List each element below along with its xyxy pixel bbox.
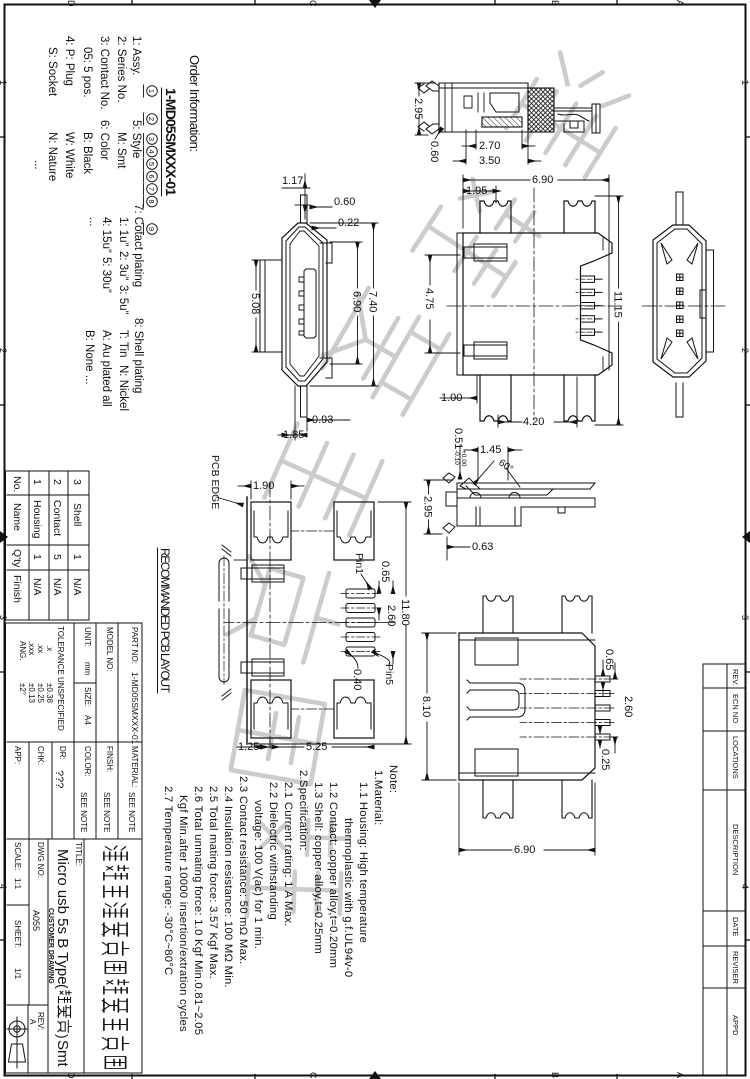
svg-text:Contact: Contact [51, 500, 63, 536]
E pad top-left rect [334, 502, 374, 560]
view C smt pins [581, 276, 603, 335]
svg-text:4.20: 4.20 [523, 416, 544, 428]
zone letters left [66, 0, 685, 7]
dim 1.45 [464, 447, 522, 480]
svg-text:3: 5u”: 3: 5u” [117, 285, 129, 315]
svg-text:11.15: 11.15 [612, 291, 624, 318]
svg-text:5.08: 5.08 [249, 293, 261, 314]
svg-text:DATE: DATE [731, 917, 740, 936]
dim 2.70 [462, 130, 535, 149]
dim 1.25 [234, 560, 272, 747]
svg-text:MODEL NO:: MODEL NO: [105, 627, 114, 672]
view A bottom flange prong left [426, 81, 439, 91]
svg-text:ECN NO: ECN NO [731, 694, 740, 723]
view D right stem [676, 383, 683, 417]
svg-text:2.70: 2.70 [479, 140, 500, 152]
dim 1.95 view C [463, 186, 496, 203]
svg-text:0.63: 0.63 [472, 541, 493, 553]
view A inner hatch strip [482, 117, 522, 127]
svg-text:A055: A055 [31, 910, 41, 931]
svg-text:0.40: 0.40 [351, 669, 363, 690]
svg-text:5: 5 [51, 554, 63, 560]
svg-text:1.45: 1.45 [480, 444, 501, 456]
svg-text:1-MD05SMXXX-01: 1-MD05SMXXX-01 [163, 88, 179, 196]
E pad bottom-left inner contour [254, 511, 288, 543]
svg-text:2.60: 2.60 [385, 605, 397, 626]
dim 6.90 view C [463, 175, 609, 370]
view D top bar [706, 250, 714, 352]
svg-text:2: 2 [51, 479, 63, 485]
view D corner latches [661, 243, 698, 359]
svg-text:5: 5 [147, 162, 156, 166]
svg-text:±0.13: ±0.13 [27, 683, 36, 704]
svg-text:Pin5: Pin5 [383, 664, 395, 685]
svg-text:No.: No. [11, 476, 23, 492]
svg-text:REVISER: REVISER [731, 951, 740, 985]
view A tail top foot [592, 104, 600, 133]
svg-text:LOCATIONS: LOCATIONS [731, 736, 740, 779]
svg-text:...: ... [87, 217, 99, 227]
svg-text:6.90: 6.90 [514, 844, 535, 856]
view C shell body outline [463, 233, 612, 375]
dim 0.93 [307, 417, 350, 431]
svg-text:-0.10: -0.10 [453, 450, 460, 465]
view A body inner edge lines [439, 83, 528, 132]
svg-text:DWG NO:: DWG NO: [36, 842, 45, 878]
svg-text:±0.25: ±0.25 [36, 683, 45, 704]
svg-text:9: 9 [147, 227, 156, 231]
center triangle bottom [0, 531, 8, 543]
svg-text:1.90: 1.90 [253, 480, 274, 492]
view F second wall strip [457, 498, 595, 507]
view C inner corner lines [602, 238, 604, 370]
svg-text:±2°: ±2° [18, 683, 27, 695]
view B inner wall [290, 231, 319, 376]
svg-text:1.Material:: 1.Material: [372, 770, 384, 826]
svg-text:A: A [675, 0, 685, 6]
svg-text:5: Style: 5: Style [130, 120, 142, 158]
svg-text:1: 1 [31, 554, 43, 560]
dim 6.90 view B [330, 242, 362, 364]
dim 3.50 [453, 130, 541, 164]
svg-text:8: 8 [147, 199, 156, 203]
svg-text:N: Nature: N: Nature [46, 132, 58, 181]
zone numbers top [740, 80, 750, 889]
svg-text:SEE NOTE: SEE NOTE [102, 792, 111, 832]
E pcb edge line [246, 497, 248, 744]
svg-text:4: 4 [0, 884, 8, 889]
svg-text:60°: 60° [496, 457, 515, 475]
svg-text:A: A [675, 1072, 685, 1078]
company name pseudo CJK row [102, 846, 128, 1069]
view F housing block [457, 507, 521, 526]
svg-text:???: ??? [53, 770, 65, 788]
svg-text:4.75: 4.75 [423, 288, 435, 309]
svg-text:0.60: 0.60 [428, 141, 440, 162]
svg-text:4: 15u”: 4: 15u” [100, 217, 112, 253]
svg-text:5: 30u”: 5: 30u” [100, 257, 112, 293]
third angle projection symbol [7, 1017, 27, 1068]
E pin pad centerlines [340, 594, 380, 652]
view F bottom closing [456, 483, 458, 526]
notes block [162, 765, 399, 1035]
svg-text:B: Black: B: Black [81, 132, 93, 174]
svg-text:UNIT:: UNIT: [83, 627, 92, 647]
view C bolt post 1 [464, 244, 507, 261]
svg-text:B: None: B: None [83, 330, 95, 372]
svg-text:RECOMMANDED PCB LAYOUT: RECOMMANDED PCB LAYOUT [158, 548, 172, 694]
svg-text:2: 2 [0, 348, 8, 353]
title block [6, 623, 143, 1073]
dim 0.63 [447, 537, 470, 560]
view G pin centerlines [520, 679, 614, 737]
svg-text:1.3 Shell: copper alloy,t=0.25: 1.3 Shell: copper alloy,t=0.25mm [312, 782, 324, 954]
E pad top-right rect [334, 680, 374, 738]
view C pin dashes [576, 279, 599, 332]
svg-text:2: 3u”: 2: 3u” [117, 251, 129, 281]
E pad pair connectors [291, 530, 334, 532]
svg-text:.xxx: .xxx [27, 641, 36, 655]
svg-text:DESCRIPTION: DESCRIPTION [731, 824, 740, 875]
center triangle top [742, 531, 750, 543]
svg-text:7: Cotact plating: 7: Cotact plating [132, 204, 144, 287]
svg-text:+0.00: +0.00 [460, 450, 467, 467]
view B left ear [320, 243, 332, 263]
svg-text:SEE NOTE: SEE NOTE [79, 792, 88, 832]
svg-text:4: 4 [740, 884, 750, 889]
view A tail wavy contact [558, 114, 589, 121]
svg-text:3: 3 [71, 479, 83, 485]
svg-text:1.85: 1.85 [283, 429, 304, 441]
view D left stem [676, 192, 683, 225]
svg-text:2.6 Total unmating force: 1.0: 2.6 Total unmating force: 1.0 Kgf Min.0.… [192, 786, 204, 1035]
E pad bottom-right inner contour [254, 697, 288, 729]
svg-text:1: 1u”: 1: 1u” [117, 217, 129, 247]
svg-text:N/A: N/A [71, 578, 83, 596]
view A bottom flange prong right [426, 124, 439, 134]
svg-text:N/A: N/A [51, 578, 63, 596]
svg-text:1: 1 [147, 89, 156, 93]
svg-text:3: 3 [147, 137, 156, 141]
E centerline horizontal [269, 483, 271, 748]
view B outer shell [282, 223, 327, 386]
view C bolt post 2 [464, 342, 507, 359]
svg-text:SHEET:: SHEET: [13, 920, 22, 948]
svg-text:SCALE:: SCALE: [13, 842, 22, 870]
E pad bottom-right rect [251, 680, 291, 738]
svg-text:3: 3 [740, 615, 750, 620]
svg-text:5.25: 5.25 [306, 741, 327, 753]
svg-text:7: 7 [147, 187, 156, 191]
dim 1.00 [440, 375, 477, 403]
svg-text:4: 4 [147, 149, 156, 153]
dim 2.95 view F [424, 480, 453, 534]
view G body outline [459, 633, 595, 780]
dim 11.80 [250, 502, 411, 744]
view C left top pad [564, 201, 595, 233]
svg-text:0.65: 0.65 [379, 561, 391, 582]
svg-text:0.25: 0.25 [599, 749, 611, 770]
svg-text:0.65: 0.65 [603, 649, 615, 670]
E pad top-left inner contour [337, 511, 371, 543]
view D centerline [640, 305, 725, 307]
svg-text:SEE NOTE: SEE NOTE [127, 792, 136, 832]
dim 11.15 [595, 196, 623, 425]
svg-text:FINSH:: FINSH: [105, 746, 114, 772]
zone ticks right edge [132, 1075, 617, 1079]
svg-text:3: Contact No.: 3: Contact No. [98, 36, 110, 110]
svg-text:Order Information:: Order Information: [187, 55, 202, 152]
svg-text:6.90: 6.90 [351, 291, 363, 312]
svg-text:Note:: Note: [387, 765, 399, 793]
svg-text:11.80: 11.80 [399, 599, 411, 626]
view B inner shell [286, 227, 323, 381]
svg-text:COLOR:: COLOR: [83, 746, 92, 777]
svg-text:voltage: 100 V(ac) for 1 min.: voltage: 100 V(ac) for 1 min. [252, 800, 264, 949]
svg-text:Finish: Finish [11, 575, 23, 603]
svg-text:S: Socket: S: Socket [46, 47, 58, 97]
svg-text:Name: Name [11, 503, 23, 531]
dim 6.90 view G [459, 783, 595, 855]
circled digits [144, 85, 158, 235]
svg-text:2.60: 2.60 [622, 696, 634, 717]
view C bottom edge double line [456, 233, 458, 375]
svg-text:Q'ty: Q'ty [11, 549, 23, 568]
view C right top pad [564, 375, 595, 421]
svg-text:B: B [550, 1072, 560, 1078]
view C left bottom pad [480, 201, 511, 233]
svg-text:±0.38: ±0.38 [45, 683, 54, 704]
E centerline vertical [225, 622, 395, 624]
svg-text:1.2 Contact: copper alloy,t=0.: 1.2 Contact: copper alloy,t=0.20mm [327, 782, 339, 968]
zone numbers bottom [0, 80, 8, 889]
svg-text:6.90: 6.90 [532, 174, 553, 186]
view F shell front face strip [457, 483, 595, 489]
svg-text:CUSTOMER DRAWING: CUSTOMER DRAWING [47, 908, 54, 984]
svg-text:0.60: 0.60 [334, 196, 355, 208]
svg-text:N/A: N/A [31, 578, 43, 596]
svg-text:6: Color: 6: Color [98, 120, 110, 160]
dim 7.40 [310, 223, 378, 386]
view B bottom bracket [260, 260, 282, 352]
svg-text:.xx: .xx [36, 643, 45, 653]
watermark band [225, 45, 637, 920]
view G right pads [562, 780, 592, 818]
svg-text:N: Nickel: N: Nickel [117, 365, 129, 411]
svg-text:1: 1 [0, 80, 8, 85]
svg-text:1: Assy.: 1: Assy. [130, 36, 142, 75]
svg-text:2.3 Contact resistance: 50 mΩ: 2.3 Contact resistance: 50 mΩ Max. [237, 776, 249, 964]
svg-text:APP:: APP: [13, 746, 22, 764]
dim 2.95 view A [415, 83, 435, 135]
view G inner bumps [475, 638, 518, 665]
view D contacts [677, 274, 684, 337]
view C centerlines [447, 305, 622, 307]
center triangle left [369, 0, 381, 8]
svg-text:2: Series No.: 2: Series No. [115, 36, 127, 102]
svg-text:CHK:: CHK: [36, 746, 45, 765]
dim 4.20 [498, 377, 577, 427]
svg-text:Shell: Shell [71, 503, 83, 526]
dim 1.17 [282, 174, 310, 219]
svg-text:A: A [28, 1019, 37, 1025]
svg-text:2.Specification:: 2.Specification: [297, 770, 309, 851]
view B right ear [320, 358, 332, 378]
svg-text:2.95: 2.95 [412, 98, 424, 119]
svg-text:MATERIAL:: MATERIAL: [130, 746, 139, 788]
svg-text:): ) [55, 1034, 71, 1039]
view F bottom bracket [446, 492, 457, 506]
svg-text:3.50: 3.50 [479, 155, 500, 167]
svg-text:8.10: 8.10 [420, 696, 432, 717]
svg-text:A: Au plated all: A: Au plated all [100, 330, 112, 407]
svg-text:0.22: 0.22 [338, 217, 359, 229]
view D inner shell line [657, 229, 702, 373]
svg-text:2.5 Total mating force: 3.57 K: 2.5 Total mating force: 3.57 Kgf Max. [207, 786, 219, 979]
svg-text:APPD: APPD [731, 1015, 740, 1036]
zone ticks top edge [746, 137, 750, 940]
svg-text:D: D [66, 0, 76, 7]
svg-text:1.17: 1.17 [282, 175, 303, 187]
dim 4.75 [425, 255, 460, 353]
pcb cross-section bar [219, 545, 231, 700]
svg-text:3: 3 [0, 615, 8, 620]
svg-text:2: 2 [740, 348, 750, 353]
view C right bottom pad [480, 375, 511, 421]
svg-text:2.95: 2.95 [422, 496, 434, 517]
svg-text:2.1 Current rating: 1 A Max.: 2.1 Current rating: 1 A Max. [282, 782, 294, 927]
dim 5.08 [252, 260, 262, 352]
svg-text:0.51: 0.51 [452, 428, 464, 449]
svg-text:M: Smt: M: Smt [115, 132, 127, 169]
view F latch blade [460, 478, 553, 495]
svg-text:1.95: 1.95 [466, 185, 487, 197]
zone ticks bottom edge [0, 137, 5, 940]
view B tongue [299, 269, 316, 338]
view G tongue U [467, 680, 525, 720]
revision table top-right [703, 664, 746, 1075]
view D outer shell octagon [653, 225, 706, 377]
view G pins [595, 676, 610, 740]
svg-text:SIZE:: SIZE: [83, 687, 92, 707]
svg-text:...: ... [32, 160, 44, 170]
svg-text:2: 2 [147, 117, 156, 121]
svg-text:mm: mm [83, 662, 92, 676]
svg-text:C: C [308, 0, 318, 7]
svg-text:6: 6 [147, 174, 156, 178]
dim 1.85 [278, 386, 307, 440]
svg-text:05: 5 pos.: 05: 5 pos. [81, 47, 93, 98]
svg-text:1: 1 [740, 80, 750, 85]
svg-text:Smt: Smt [54, 1040, 71, 1068]
zone letters right [66, 1072, 685, 1079]
svg-text:DR:: DR: [58, 746, 67, 760]
svg-text:1.00: 1.00 [441, 392, 462, 404]
view A housing inner [490, 93, 519, 112]
svg-text:A4: A4 [83, 715, 92, 725]
svg-text:Kgf Min.after 10000 insertion/: Kgf Min.after 10000 insertion/extration … [177, 795, 189, 1032]
dim 8.10 [422, 633, 456, 780]
svg-text:2.2 Dielectric withstanding: 2.2 Dielectric withstanding [267, 782, 279, 920]
svg-text:TOLERANCE UNSPECIFIED: TOLERANCE UNSPECIFIED [56, 626, 65, 731]
view G left pads [562, 596, 592, 633]
svg-text:2.4 Insulation resistance: 100: 2.4 Insulation resistance: 100 MΩ Min. [222, 786, 234, 988]
svg-text:Pin1: Pin1 [353, 553, 365, 574]
svg-text:T: Tin: T: Tin [117, 330, 129, 357]
svg-text:1.1 Housing: High temperature: 1.1 Housing: High temperature [357, 782, 369, 943]
view A hatched block [528, 88, 554, 132]
view F bumps on wall [470, 493, 520, 499]
dim 5.25 [272, 746, 374, 748]
view B right stem [301, 386, 308, 417]
svg-text:7.40: 7.40 [367, 291, 379, 312]
svg-text:(: ( [55, 984, 71, 989]
svg-text:1: 1 [31, 479, 43, 485]
svg-text:Housing: Housing [31, 500, 43, 539]
svg-text:REV.: REV. [731, 669, 740, 686]
svg-text:2.7 Temperature range: -30°C~8: 2.7 Temperature range: -30°C~80°C [162, 786, 174, 975]
center triangle right [369, 1071, 381, 1079]
svg-text:W: White: W: White [63, 132, 75, 178]
dim 1.90 [238, 481, 304, 499]
svg-text:1: 1 [71, 554, 83, 560]
E pad top-right inner contour [337, 697, 371, 729]
svg-text:1/1: 1/1 [13, 968, 22, 980]
svg-text:1.25: 1.25 [238, 741, 259, 753]
view F prong bottom-right [443, 523, 455, 533]
order option list [32, 36, 144, 411]
view D top seam notch [700, 290, 706, 318]
svg-text:.x: .x [45, 645, 54, 651]
svg-text:0.93: 0.93 [312, 414, 333, 426]
tolerance block [18, 626, 65, 731]
E pin pads [346, 589, 375, 656]
svg-text:PCB EDGE: PCB EDGE [209, 455, 221, 509]
svg-text:1-MD05SMXXX-01: 1-MD05SMXXX-01 [130, 672, 140, 745]
view A tail bar [554, 108, 592, 132]
svg-text:thermoplastic with g.f.UL94v-0: thermoplastic with g.f.UL94v-0 [342, 818, 354, 977]
svg-text:B: B [550, 0, 560, 6]
svg-text:8: Shell plating: 8: Shell plating [132, 318, 144, 393]
view F prong bottom-left [443, 473, 455, 483]
E posts [241, 565, 284, 676]
view F right bar notch [558, 507, 565, 513]
E pad bottom-left rect [251, 502, 291, 560]
svg-text:TITLE:: TITLE: [74, 842, 83, 866]
view A body outline [439, 83, 528, 132]
zone ticks left edge [132, 0, 617, 5]
svg-text:ANG.: ANG. [18, 641, 27, 661]
svg-text:4: P: Plug: 4: P: Plug [63, 36, 75, 86]
svg-text:...: ... [83, 375, 95, 385]
svg-text:PART NO:: PART NO: [130, 627, 139, 664]
svg-text:1:1: 1:1 [13, 878, 22, 890]
view B left stem [301, 195, 308, 223]
svg-text:REV:: REV: [36, 1012, 45, 1030]
parts table [6, 471, 90, 620]
svg-text:C: C [308, 1072, 318, 1079]
view A tail hook [570, 121, 578, 128]
svg-text:Micro usb 5s B Type: Micro usb 5s B Type [54, 849, 71, 985]
view G inner lines [459, 640, 595, 773]
